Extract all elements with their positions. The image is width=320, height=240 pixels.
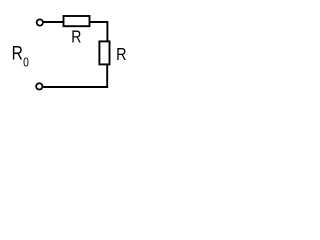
resistor R (horizontal box) <box>64 16 90 26</box>
wire: top terminal to resistor R1 <box>44 21 64 23</box>
svg-text:R: R <box>12 42 23 64</box>
label R (vertical resistor) <box>116 45 126 65</box>
label R (horizontal resistor) <box>71 27 81 47</box>
terminal B (bottom-left open circle) <box>36 83 42 89</box>
svg-text:R: R <box>116 45 126 65</box>
label R0 (input resistance) <box>12 42 23 64</box>
svg-text:R: R <box>71 27 81 47</box>
wire: resistor R1 right, corner, down to resistor R2 <box>90 22 108 41</box>
svg-text:0: 0 <box>23 55 29 69</box>
label R0 subscript 0 <box>23 55 29 69</box>
resistor R (vertical box) <box>99 41 109 64</box>
terminal A (top-left open circle) <box>37 19 43 25</box>
wire: resistor R2 bottom, corner, to bottom terminal <box>43 64 107 87</box>
